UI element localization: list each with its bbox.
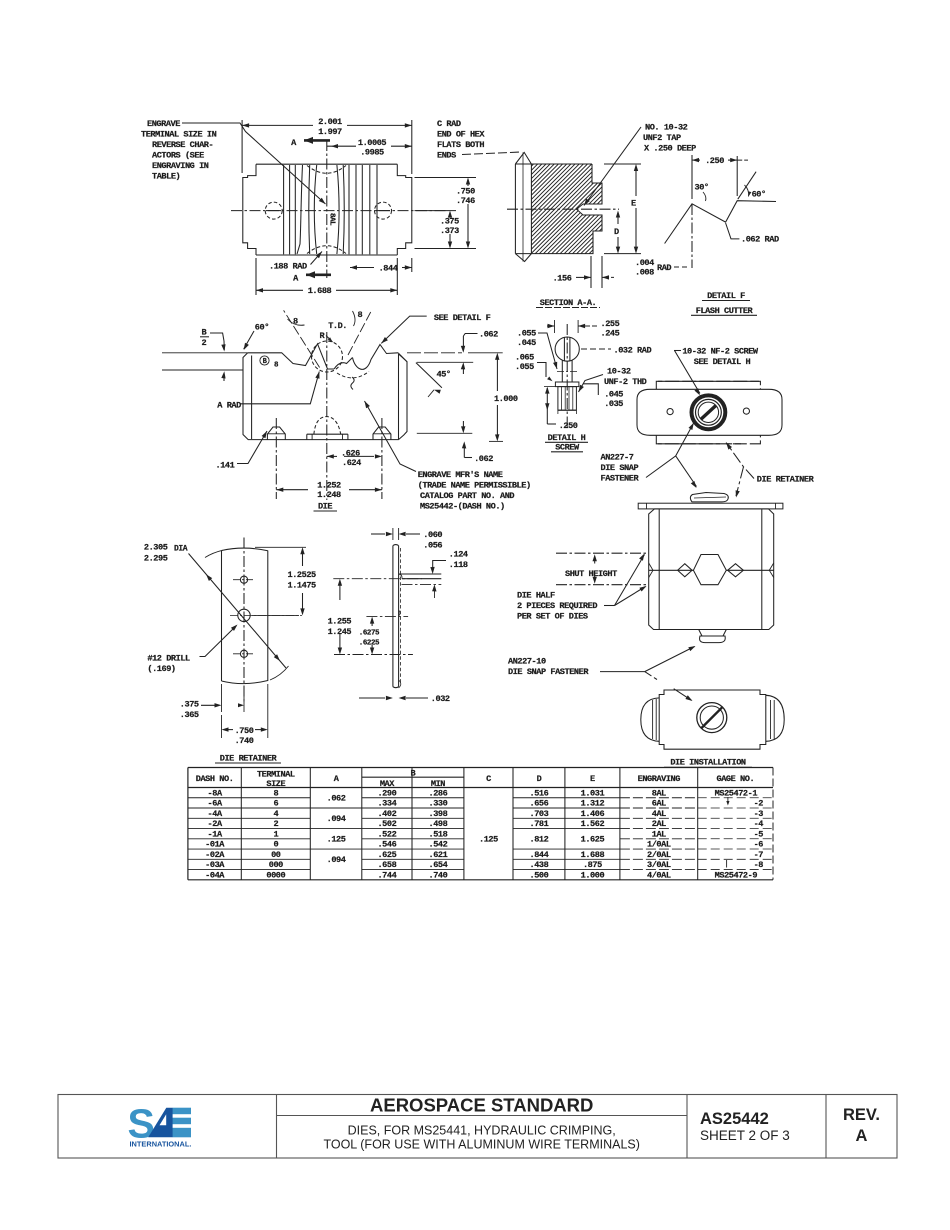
svg-text:0: 0 [273,840,278,850]
svg-text:.844: .844 [379,263,398,273]
svg-text:TOOL (FOR USE WITH ALUMINUM WI: TOOL (FOR USE WITH ALUMINUM WIRE TERMINA… [323,1138,639,1152]
svg-text:1.000: 1.000 [494,394,518,404]
svg-text:-5: -5 [754,829,764,839]
svg-text:1.031: 1.031 [581,788,605,798]
svg-text:.438: .438 [530,860,549,870]
svg-text:1.2525: 1.2525 [288,570,317,580]
svg-text:(.169): (.169) [147,664,175,674]
svg-text:D: D [537,774,542,784]
svg-text:-8A: -8A [208,788,223,798]
svg-text:END OF HEX: END OF HEX [437,130,485,140]
svg-text:1.406: 1.406 [581,809,605,819]
svg-text:AN227-7: AN227-7 [601,453,634,463]
svg-text:#12 DRILL: #12 DRILL [147,654,190,664]
svg-text:FLATS BOTH: FLATS BOTH [437,140,484,150]
svg-text:DIE SNAP FASTENER: DIE SNAP FASTENER [508,667,589,677]
svg-text:PER SET OF DIES: PER SET OF DIES [517,612,588,622]
svg-text:.546: .546 [377,840,396,850]
svg-text:-8: -8 [754,860,764,870]
svg-text:2.001: 2.001 [318,117,342,127]
svg-text:10-32: 10-32 [607,367,631,377]
svg-text:.188 RAD: .188 RAD [269,262,307,272]
svg-text:4/0AL: 4/0AL [647,870,671,880]
svg-text:SHUT HEIGHT: SHUT HEIGHT [565,569,617,579]
svg-text:.250: .250 [705,156,724,166]
svg-text:1.245: 1.245 [328,627,352,637]
svg-text:.045: .045 [604,390,623,400]
svg-text:1: 1 [273,829,278,839]
svg-text:.334: .334 [377,799,396,809]
svg-text:.062 RAD: .062 RAD [741,235,779,245]
svg-text:.365: .365 [180,710,199,720]
svg-text:.375: .375 [180,700,199,710]
svg-text:ENGRAVING: ENGRAVING [638,774,681,784]
svg-text:REV.: REV. [843,1106,880,1124]
svg-text:0000: 0000 [266,870,285,880]
svg-text:2AL: 2AL [652,819,666,829]
svg-text:.812: .812 [530,835,549,845]
svg-text:X .250 DEEP: X .250 DEEP [644,144,696,154]
svg-text:.654: .654 [429,860,448,870]
svg-text:.060: .060 [423,530,442,540]
svg-text:.250: .250 [559,421,578,431]
svg-text:.9985: .9985 [360,148,384,158]
svg-text:-01A: -01A [205,840,225,850]
svg-text:-1A: -1A [208,829,223,839]
svg-text:-3: -3 [754,809,764,819]
svg-text:1.688: 1.688 [581,850,605,860]
svg-text:ENGRAVING IN: ENGRAVING IN [152,161,209,171]
svg-text:SEE DETAIL H: SEE DETAIL H [694,357,751,367]
svg-text:.004: .004 [635,258,654,268]
svg-text:4: 4 [273,809,278,819]
svg-text:1.312: 1.312 [581,799,605,809]
svg-text:UNF2 TAP: UNF2 TAP [643,133,681,143]
svg-text:.094: .094 [327,855,346,865]
svg-text:2: 2 [273,819,278,829]
svg-text:E: E [631,199,636,209]
svg-text:1.252: 1.252 [317,480,341,490]
svg-text:DIA: DIA [174,545,188,554]
svg-text:.065: .065 [515,353,534,363]
svg-text:-2A: -2A [208,819,223,829]
svg-text:.055: .055 [515,362,534,372]
svg-text:SEE DETAIL F: SEE DETAIL F [434,313,491,323]
svg-text:SHEET 2 OF 3: SHEET 2 OF 3 [700,1128,790,1143]
svg-text:SCREW: SCREW [555,442,580,452]
svg-text:.746: .746 [456,196,475,206]
svg-text:1.248: 1.248 [317,490,341,500]
svg-text:DIE INSTALLATION: DIE INSTALLATION [670,758,746,768]
svg-text:.062: .062 [474,454,493,464]
svg-text:B: B [263,358,268,366]
svg-text:1.000: 1.000 [581,870,605,880]
svg-text:DIE HALF: DIE HALF [517,591,555,601]
svg-text:.518: .518 [429,829,448,839]
svg-text:.125: .125 [327,835,346,845]
svg-text:SECTION A-A.: SECTION A-A. [540,298,597,308]
svg-text:2 PIECES REQUIRED: 2 PIECES REQUIRED [517,601,597,611]
svg-text:AS25442: AS25442 [700,1110,769,1128]
svg-text:.6275: .6275 [359,630,380,638]
svg-text:.118: .118 [449,560,468,570]
svg-text:1.562: 1.562 [581,819,605,829]
svg-text:.500: .500 [530,870,549,880]
svg-text:.008: .008 [635,268,654,278]
svg-text:8: 8 [274,362,279,370]
svg-text:TERMINAL SIZE IN: TERMINAL SIZE IN [141,130,217,140]
svg-text:-04A: -04A [205,870,225,880]
svg-text:.740: .740 [235,736,254,746]
svg-text:.141: .141 [216,461,235,471]
svg-text:FLASH CUTTER: FLASH CUTTER [696,306,754,316]
svg-text:60°: 60° [255,323,269,333]
svg-text:.844: .844 [530,850,549,860]
svg-text:ENDS: ENDS [437,151,456,161]
svg-text:.624: .624 [342,458,361,468]
svg-text:B: B [410,769,415,779]
svg-text:-4: -4 [754,819,764,829]
svg-text:MAX: MAX [380,779,395,789]
svg-text:C RAD: C RAD [437,119,461,129]
svg-text:.373: .373 [440,226,459,236]
svg-text:6AL: 6AL [652,799,666,809]
svg-text:A RAD: A RAD [217,401,241,411]
svg-text:NO. 10-32: NO. 10-32 [645,123,688,133]
svg-text:000: 000 [269,860,283,870]
svg-text:1.0005: 1.0005 [358,138,387,148]
svg-text:.875: .875 [583,860,602,870]
svg-text:2.305: 2.305 [144,543,168,553]
svg-text:AN227-10: AN227-10 [508,657,546,667]
svg-text:DIE RETAINER: DIE RETAINER [757,475,815,485]
svg-text:1.255: 1.255 [328,617,352,627]
svg-text:SIZE: SIZE [266,779,285,789]
svg-text:DIES, FOR MS25441, HYDRAULIC C: DIES, FOR MS25441, HYDRAULIC CRIMPING, [348,1124,616,1138]
svg-text:MS25472-1: MS25472-1 [715,788,758,798]
svg-text:DIE RETAINER: DIE RETAINER [220,754,278,764]
svg-text:30°: 30° [695,183,709,193]
svg-text:.032 RAD: .032 RAD [614,346,652,356]
svg-text:GAGE NO.: GAGE NO. [717,774,755,784]
svg-text:.744: .744 [377,870,396,880]
svg-text:.056: .056 [423,541,442,551]
svg-text:.245: .245 [601,329,620,339]
svg-text:.6225: .6225 [359,640,380,648]
svg-text:CATALOG PART NO. AND: CATALOG PART NO. AND [420,491,514,501]
svg-text:.062: .062 [327,794,346,804]
svg-text:D: D [614,227,619,237]
svg-text:6: 6 [273,799,278,809]
svg-text:DIE SNAP: DIE SNAP [601,463,639,473]
svg-text:C: C [486,774,491,784]
svg-text:00: 00 [271,850,281,860]
svg-text:8AL: 8AL [328,213,336,226]
svg-text:8: 8 [273,788,278,798]
svg-text:.125: .125 [479,835,498,845]
svg-text:(TRADE NAME PERMISSIBLE): (TRADE NAME PERMISSIBLE) [418,480,531,490]
svg-text:ACTORS (SEE: ACTORS (SEE [152,151,204,161]
svg-text:REVERSE CHAR-: REVERSE CHAR- [152,140,213,150]
svg-text:A: A [856,1127,868,1145]
svg-text:.124: .124 [449,550,468,560]
svg-text:ENGRAVE MFR'S NAME: ENGRAVE MFR'S NAME [418,470,503,480]
svg-text:.522: .522 [377,829,396,839]
svg-text:.621: .621 [429,850,448,860]
svg-text:.656: .656 [530,799,549,809]
svg-text:A: A [293,274,299,284]
svg-text:.740: .740 [429,870,448,880]
svg-text:.626: .626 [341,448,360,458]
svg-text:UNF-2 THD: UNF-2 THD [604,377,647,387]
svg-text:.625: .625 [377,850,396,860]
svg-text:-7: -7 [754,850,764,860]
svg-text:1/0AL: 1/0AL [647,840,671,850]
svg-text:.290: .290 [377,788,396,798]
svg-text:-4A: -4A [208,809,223,819]
svg-text:RAD: RAD [657,263,671,273]
svg-text:.156: .156 [553,274,572,284]
svg-text:.055: .055 [517,329,536,339]
svg-text:.330: .330 [429,799,448,809]
svg-text:.035: .035 [604,399,623,409]
svg-text:.375: .375 [440,217,459,227]
svg-text:1AL: 1AL [652,829,666,839]
svg-text:10-32 NF-2 SCREW: 10-32 NF-2 SCREW [682,347,759,357]
svg-text:2/0AL: 2/0AL [647,850,671,860]
svg-text:-6A: -6A [208,799,223,809]
svg-text:.402: .402 [377,809,396,819]
svg-text:E: E [590,774,595,784]
svg-text:45°: 45° [437,370,451,380]
svg-text:T.D.: T.D. [328,321,347,331]
svg-text:2: 2 [202,338,207,348]
svg-text:DIE: DIE [318,502,332,512]
svg-text:MIN: MIN [431,779,445,789]
svg-text:1.625: 1.625 [581,835,605,845]
svg-text:-03A: -03A [205,860,225,870]
svg-text:1.688: 1.688 [308,286,332,296]
svg-text:.703: .703 [530,809,549,819]
svg-text:.658: .658 [377,860,396,870]
svg-text:.045: .045 [517,338,536,348]
svg-text:8AL: 8AL [652,788,666,798]
svg-text:.542: .542 [429,840,448,850]
svg-text:1.997: 1.997 [318,127,342,137]
svg-text:DETAIL F: DETAIL F [707,291,745,301]
svg-text:DETAIL H: DETAIL H [548,433,586,443]
svg-text:.750: .750 [235,726,254,736]
svg-text:.398: .398 [429,809,448,819]
svg-text:.062: .062 [479,330,498,340]
svg-text:3/0AL: 3/0AL [647,860,671,870]
svg-text:.498: .498 [429,819,448,829]
svg-text:ENGRAVE: ENGRAVE [147,119,180,129]
svg-text:60°: 60° [752,190,766,200]
svg-text:TABLE): TABLE) [152,172,180,182]
svg-text:.781: .781 [530,819,549,829]
svg-text:-2: -2 [754,799,764,809]
svg-text:INTERNATIONAL.: INTERNATIONAL. [130,1140,193,1149]
svg-text:.516: .516 [530,788,549,798]
svg-text:2.295: 2.295 [144,554,168,564]
svg-text:.094: .094 [327,814,346,824]
svg-text:R: R [320,331,326,341]
svg-text:4AL: 4AL [652,809,666,819]
svg-text:A: A [334,774,340,784]
svg-text:MS25442-(DASH NO.): MS25442-(DASH NO.) [420,501,505,511]
svg-text:B: B [202,328,207,338]
svg-text:.502: .502 [377,819,396,829]
svg-text:.255: .255 [601,319,620,329]
svg-text:A: A [291,138,297,148]
svg-text:.750: .750 [456,187,475,197]
svg-text:DASH NO.: DASH NO. [196,774,234,784]
svg-text:MS25472-9: MS25472-9 [715,870,758,880]
svg-text:.286: .286 [429,788,448,798]
svg-text:AEROSPACE STANDARD: AEROSPACE STANDARD [370,1095,593,1116]
svg-text:-6: -6 [754,840,764,850]
svg-text:8: 8 [358,310,363,320]
svg-text:FASTENER: FASTENER [601,474,640,484]
svg-text:-02A: -02A [205,850,225,860]
svg-text:.032: .032 [431,694,450,704]
svg-text:1.1475: 1.1475 [288,581,317,591]
